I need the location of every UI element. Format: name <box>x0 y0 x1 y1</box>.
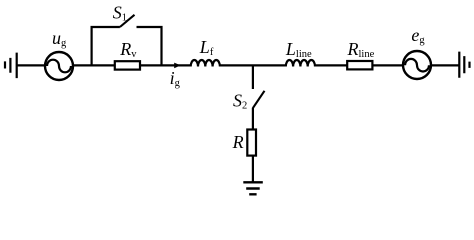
svg-text:R: R <box>232 132 244 152</box>
